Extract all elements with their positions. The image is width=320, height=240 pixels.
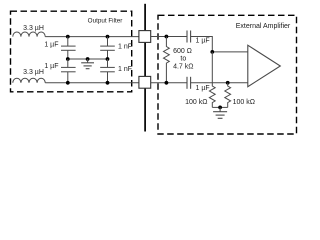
wire square to amp top [151, 36, 187, 38]
node dot mid-right [106, 57, 110, 61]
svg-text:1 µF: 1 µF [196, 38, 210, 45]
resistor R3 100 kohm right [225, 83, 231, 108]
wire top left [45, 36, 139, 38]
wire cap to minus input [191, 82, 248, 84]
connector square bottom [139, 76, 151, 88]
external amplifier box [158, 15, 297, 134]
svg-text:4.7 kΩ: 4.7 kΩ [173, 64, 193, 71]
output filter box [11, 11, 132, 92]
node dot top 1nF [106, 35, 110, 39]
wire bottom left [45, 82, 139, 84]
svg-text:to: to [180, 55, 186, 62]
ground left box [81, 59, 94, 69]
resistor R1 600 ohm to 4.7 kohm [163, 37, 169, 83]
node dot mid-center [86, 57, 90, 61]
inductor L2 3.3 uH bottom [13, 78, 45, 83]
svg-text:100 kΩ: 100 kΩ [185, 99, 207, 106]
capacitor C2 1uF bottom [61, 59, 76, 83]
node dot ground [218, 106, 222, 110]
inductor L1 3.3 uH top [13, 32, 45, 37]
svg-text:External Amplifier: External Amplifier [236, 23, 291, 30]
svg-text:1 µF: 1 µF [44, 63, 58, 70]
capacitor C4 1nF bottom [100, 59, 115, 83]
wire cap to plus input [191, 37, 248, 52]
svg-text:600 Ω: 600 Ω [173, 48, 192, 55]
svg-text:1 µF: 1 µF [196, 85, 210, 92]
svg-text:3.3 µH: 3.3 µH [23, 25, 44, 32]
ground right box [213, 107, 227, 118]
node dot bottom 1nF [106, 81, 110, 85]
node dot minus input [226, 81, 230, 85]
node dot bottom right-box [165, 81, 169, 85]
mid rail wire [68, 58, 108, 60]
svg-text:Output Filter: Output Filter [88, 17, 123, 24]
resistor R2 100 kohm left [209, 52, 215, 108]
series capacitor 1uF top [187, 31, 191, 43]
capacitor C3 1nF top [100, 37, 115, 59]
series capacitor 1uF bottom [187, 77, 191, 89]
node dot top-left [66, 35, 70, 39]
node dot plus input [210, 50, 214, 54]
svg-text:3.3 µH: 3.3 µH [23, 69, 44, 76]
wire square to amp bottom [151, 82, 187, 84]
connector square top [139, 31, 151, 43]
svg-text:1 µF: 1 µF [44, 42, 58, 49]
node dot mid-left [66, 57, 70, 61]
op-amp U1 [248, 45, 280, 86]
connector line [144, 4, 146, 132]
svg-text:1 nF: 1 nF [118, 66, 132, 73]
svg-text:1 nF: 1 nF [118, 44, 132, 51]
capacitor C1 1uF top [61, 37, 76, 59]
ground rail wire [212, 106, 227, 108]
node dot bottom-left [66, 81, 70, 85]
svg-text:100 kΩ: 100 kΩ [233, 99, 255, 106]
node dot top right-box [165, 35, 169, 39]
